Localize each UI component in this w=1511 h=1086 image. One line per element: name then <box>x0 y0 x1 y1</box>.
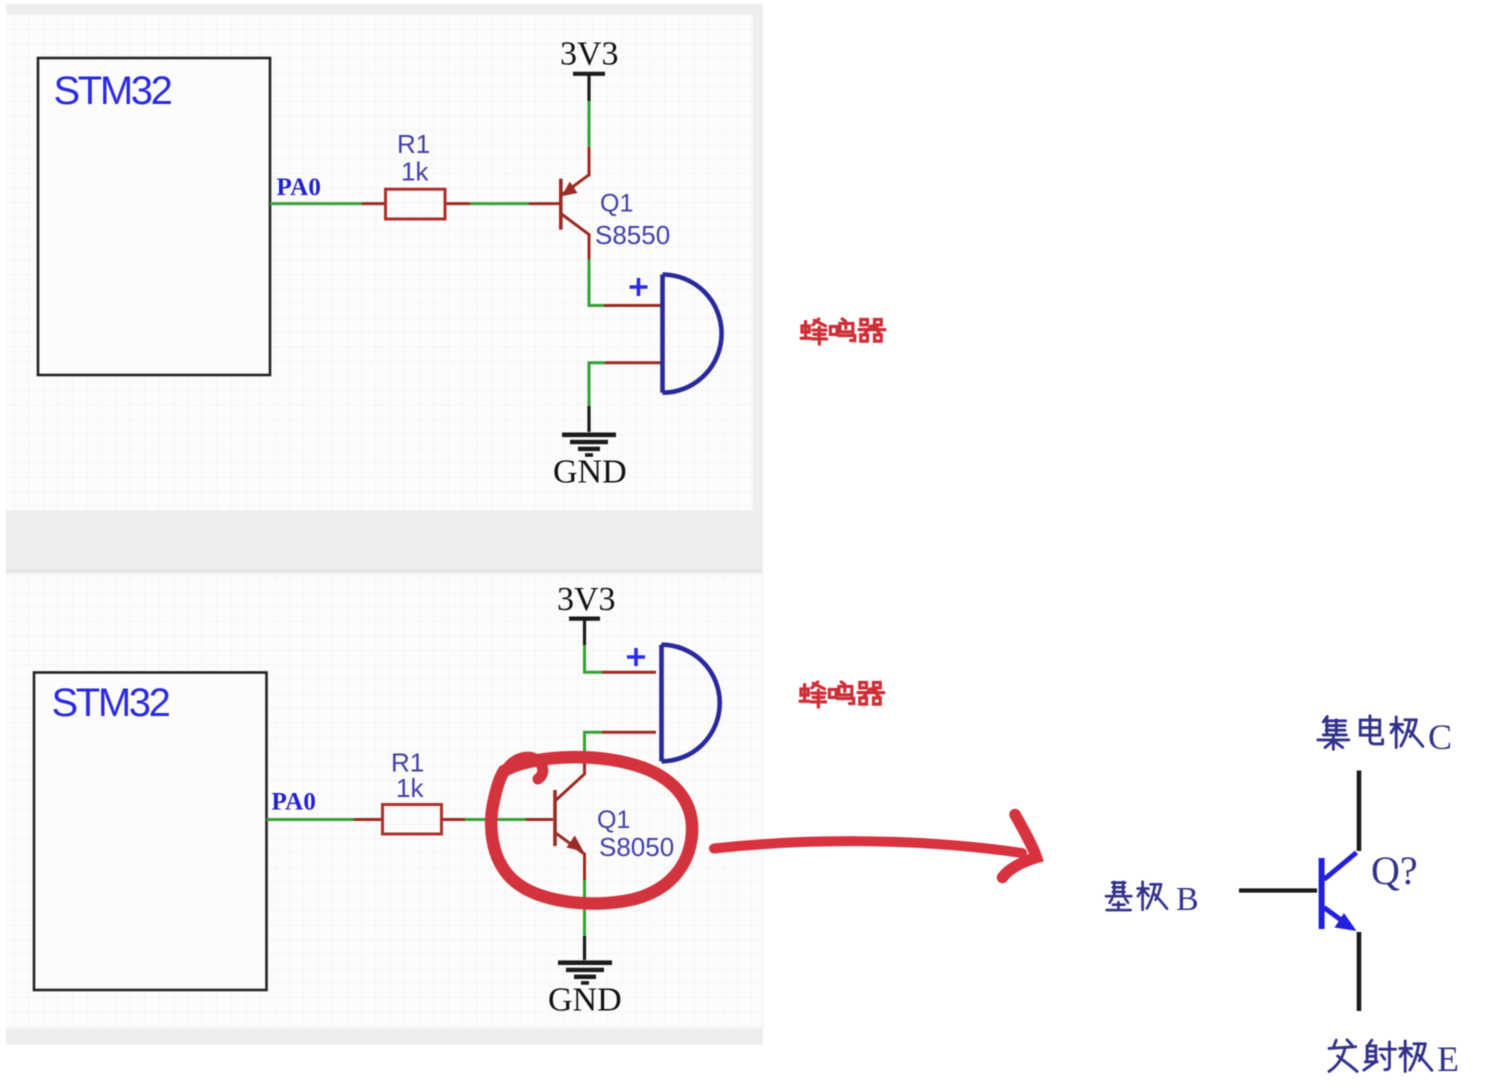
svg-text:R1: R1 <box>397 129 430 159</box>
svg-text:STM32: STM32 <box>52 681 170 725</box>
svg-text:PA0: PA0 <box>277 174 322 201</box>
svg-text:C: C <box>1428 717 1452 757</box>
svg-text:PA0: PA0 <box>272 789 317 816</box>
svg-text:B: B <box>1176 881 1199 918</box>
svg-text:3V3: 3V3 <box>557 581 616 618</box>
svg-text:Q1: Q1 <box>597 806 630 834</box>
svg-text:S8050: S8050 <box>599 832 674 862</box>
svg-text:S8550: S8550 <box>595 220 670 250</box>
svg-text:E: E <box>1437 1039 1459 1079</box>
svg-text:GND: GND <box>553 454 627 491</box>
svg-text:STM32: STM32 <box>54 69 172 113</box>
svg-text:3V3: 3V3 <box>560 36 619 73</box>
svg-text:Q1: Q1 <box>600 190 633 218</box>
svg-text:1k: 1k <box>401 157 429 187</box>
svg-text:GND: GND <box>548 982 622 1019</box>
svg-text:1k: 1k <box>396 773 424 803</box>
svg-text:Q?: Q? <box>1371 848 1418 893</box>
